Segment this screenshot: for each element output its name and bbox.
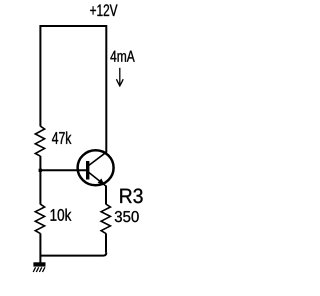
resistor R1 47k (zigzag)	[35, 126, 44, 156]
label 4mA	[110, 51, 134, 62]
ground (earth) symbol	[33, 262, 45, 272]
label 10k	[51, 209, 72, 221]
wire: left vertical from top rail to 47k	[39, 25, 41, 126]
transistor Q1 base bar	[86, 161, 89, 180]
node: base junction dot	[39, 169, 42, 172]
current arrow 4mA (pointing down)	[116, 68, 123, 86]
label R3	[120, 189, 142, 204]
node +12V label	[90, 4, 117, 16]
transistor Q1 collector lead	[88, 152, 106, 166]
label 350	[115, 211, 139, 222]
wire: bottom rail	[40, 253, 106, 256]
transistor Q1 emitter arrowhead	[98, 178, 105, 185]
resistor R3 (zigzag)	[101, 204, 110, 233]
wire: base wire to transistor	[40, 169, 86, 171]
transistor Q1 (NPN) body circle	[78, 150, 114, 185]
wire: left vertical from 10k to ground	[39, 233, 41, 262]
wire: emitter down to R3	[105, 186, 107, 205]
wire: top rail	[40, 25, 106, 27]
transistor Q1 emitter lead	[88, 172, 106, 186]
wire: right vertical from top rail to collector	[105, 25, 107, 153]
wire: R3 down to bottom rail	[105, 233, 107, 252]
resistor R2 10k (zigzag)	[35, 204, 44, 233]
wire: left vertical between 47k and 10k	[39, 156, 41, 204]
label 47k	[52, 131, 71, 143]
